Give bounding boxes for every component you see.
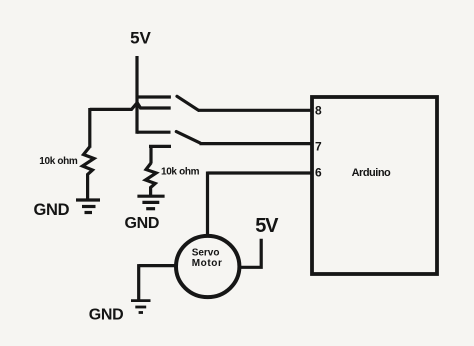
wire left branch vertical to R1 [88, 108, 91, 148]
wire to pin 7 [200, 142, 313, 145]
wire servo ground horizontal [139, 264, 177, 267]
resistor R2 (10k) zigzag [146, 163, 157, 195]
resistor R1 (10k) zigzag [83, 147, 95, 199]
svg-text:5V: 5V [130, 29, 151, 48]
svg-text:Motor: Motor [192, 258, 223, 269]
wire 5V vertical feed [135, 56, 138, 134]
switch S1 blade [177, 96, 199, 110]
wire left branch with crossover hop [90, 103, 171, 110]
servo motor M1 body [176, 236, 239, 297]
ground symbol G2 [137, 196, 164, 209]
svg-text:10k ohm: 10k ohm [161, 167, 200, 178]
wire servo 5V feed [240, 239, 261, 267]
svg-text:GND: GND [89, 307, 124, 324]
wire switch S2 upper stub [137, 131, 171, 134]
svg-text:Servo: Servo [192, 247, 220, 258]
svg-text:GND: GND [125, 215, 160, 232]
Arduino U1 box [312, 97, 437, 274]
wire to pin 6 [208, 171, 313, 174]
wire servo signal vertical [206, 172, 209, 237]
ground symbol G1 [76, 200, 100, 213]
wire switch S1 upper stub [137, 95, 171, 98]
ground symbol G3 (servo) [131, 301, 151, 313]
svg-text:8: 8 [315, 103, 322, 117]
svg-text:Arduino: Arduino [352, 167, 391, 179]
svg-text:7: 7 [315, 139, 322, 153]
svg-text:5V: 5V [255, 215, 279, 237]
switch S2 blade [176, 132, 200, 143]
wire switch S2 lower stub [149, 145, 171, 148]
svg-text:GND: GND [34, 201, 70, 219]
svg-text:6: 6 [315, 165, 322, 179]
wire servo ground vertical [137, 264, 140, 300]
wire R2 branch vertical [149, 145, 152, 164]
svg-text:10k ohm: 10k ohm [39, 156, 78, 167]
wire to pin 8 [198, 109, 312, 112]
